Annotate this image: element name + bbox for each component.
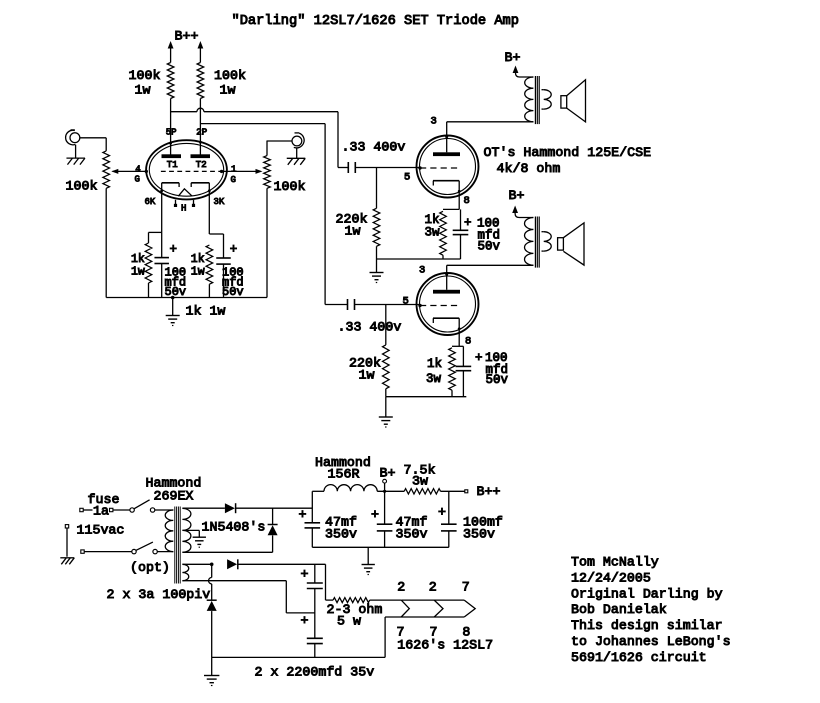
svg-text:5P: 5P (166, 128, 177, 138)
svg-text:B++: B++ (175, 29, 199, 44)
svg-text:5: 5 (404, 172, 410, 184)
svg-text:1w: 1w (359, 368, 375, 383)
svg-text:2: 2 (429, 580, 437, 595)
svg-text:2: 2 (397, 580, 405, 595)
svg-text:100k: 100k (214, 68, 246, 83)
svg-text:Bob Danielak: Bob Danielak (571, 602, 667, 617)
svg-text:(opt): (opt) (130, 560, 170, 575)
svg-text:1w: 1w (135, 83, 151, 98)
svg-text:3: 3 (419, 265, 425, 277)
svg-text:B+: B+ (380, 466, 396, 481)
svg-text:50v: 50v (478, 240, 501, 254)
svg-text:B+: B+ (509, 188, 525, 203)
svg-text:G: G (231, 175, 236, 185)
svg-text:350v: 350v (325, 527, 357, 542)
svg-text:+: + (299, 507, 307, 522)
svg-text:50v: 50v (486, 373, 509, 387)
svg-text:OT's Hammond 125E/CSE: OT's Hammond 125E/CSE (484, 145, 652, 160)
svg-text:1k: 1k (427, 357, 442, 371)
svg-text:1N5408's: 1N5408's (202, 520, 266, 535)
svg-text:B++: B++ (477, 484, 501, 499)
svg-text:1w: 1w (191, 265, 205, 278)
svg-text:6K: 6K (145, 197, 156, 207)
svg-text:3w: 3w (426, 372, 442, 386)
svg-text:G: G (135, 175, 140, 185)
svg-text:5: 5 (403, 296, 409, 308)
svg-text:156R: 156R (328, 467, 360, 482)
svg-text:100k: 100k (129, 68, 161, 83)
svg-text:2 x 2200mfd 35v: 2 x 2200mfd 35v (255, 665, 375, 680)
svg-text:115vac: 115vac (77, 523, 125, 538)
svg-text:350v: 350v (463, 527, 495, 542)
svg-text:Tom McNally: Tom McNally (571, 555, 659, 570)
svg-text:1w: 1w (345, 224, 361, 239)
svg-text:1k 1w: 1k 1w (186, 304, 226, 319)
svg-text:Original Darling by: Original Darling by (571, 586, 723, 601)
svg-text:+: + (464, 216, 472, 230)
svg-text:T2: T2 (196, 160, 207, 170)
svg-text:2P: 2P (196, 128, 207, 138)
svg-text:3: 3 (431, 116, 437, 128)
svg-text:100k: 100k (274, 179, 306, 194)
svg-text:1626's 12SL7: 1626's 12SL7 (397, 637, 493, 652)
svg-text:B+: B+ (505, 50, 521, 65)
svg-text:+: + (230, 243, 238, 257)
svg-text:3K: 3K (214, 197, 225, 207)
svg-text:+: + (371, 507, 379, 522)
svg-text:3w: 3w (412, 474, 428, 489)
svg-text:This design similar: This design similar (571, 618, 723, 633)
svg-text:1k: 1k (131, 253, 145, 266)
svg-text:+: + (475, 351, 483, 365)
svg-text:8: 8 (465, 336, 471, 348)
svg-text:T1: T1 (167, 160, 178, 170)
svg-text:12/24/2005: 12/24/2005 (571, 570, 651, 585)
svg-text:100k: 100k (66, 179, 98, 194)
svg-text:5691/1626 circuit: 5691/1626 circuit (571, 650, 707, 665)
svg-text:5 w: 5 w (337, 614, 361, 629)
svg-text:to Johannes LeBong's: to Johannes LeBong's (571, 634, 731, 649)
svg-text:7: 7 (462, 580, 470, 595)
svg-text:.33 400v: .33 400v (338, 320, 402, 335)
svg-text:"Darling" 12SL7/1626 SET Triod: "Darling" 12SL7/1626 SET Triode Amp (232, 14, 519, 29)
svg-text:1a: 1a (93, 504, 109, 519)
svg-text:1: 1 (231, 165, 236, 175)
svg-text:269EX: 269EX (154, 489, 194, 504)
svg-text:+: + (438, 505, 446, 520)
svg-text:1k: 1k (191, 253, 205, 266)
svg-text:+: + (301, 613, 309, 628)
svg-text:3w: 3w (425, 226, 441, 240)
svg-text:1w: 1w (131, 265, 145, 278)
svg-text:+: + (170, 243, 178, 257)
svg-text:2 x 3a 100piv: 2 x 3a 100piv (107, 587, 211, 602)
svg-text:.33 400v: .33 400v (342, 140, 406, 155)
svg-text:1w: 1w (220, 83, 236, 98)
svg-text:350v: 350v (396, 527, 428, 542)
svg-text:8: 8 (464, 195, 470, 207)
svg-text:4: 4 (135, 165, 140, 175)
svg-text:4k/8 ohm: 4k/8 ohm (497, 161, 561, 176)
svg-text:H: H (181, 204, 186, 214)
svg-text:+: + (301, 567, 309, 582)
